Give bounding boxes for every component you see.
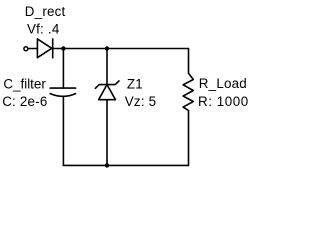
svg-text:D_rect: D_rect: [25, 4, 66, 19]
wire zener branch bottom: [106, 100, 108, 166]
junction dot node C (zener bottom): [105, 163, 109, 167]
capacitor C_filter top plate: [50, 87, 75, 89]
svg-text:C_filter: C_filter: [3, 76, 46, 91]
diode D_rect triangle: [37, 39, 51, 58]
wire top rail (cathode to right corner): [53, 48, 189, 50]
wire resistor to bottom rail: [188, 110, 190, 165]
svg-text:Vz: 5: Vz: 5: [125, 94, 157, 109]
wire capacitor branch bottom: [62, 96, 64, 165]
svg-text:Vf: .4: Vf: .4: [27, 21, 60, 36]
diode D_rect cathode bar: [52, 39, 54, 58]
svg-text:R: 1000: R: 1000: [198, 94, 249, 109]
svg-text:Z1: Z1: [127, 76, 143, 91]
wire capacitor branch top: [62, 49, 64, 89]
svg-text:R_Load: R_Load: [199, 76, 247, 91]
wire zener branch top: [106, 49, 108, 85]
zener Z1 cathode bar with hooks: [95, 81, 119, 88]
wire right branch down to resistor: [188, 49, 190, 74]
junction dot node A (diode/capacitor): [61, 46, 65, 50]
capacitor C_filter curved bottom plate: [50, 94, 75, 97]
input terminal (open circle): [24, 47, 28, 51]
wire bottom rail: [63, 164, 188, 166]
wire terminal to diode anode: [29, 48, 38, 50]
svg-text:C: 2e-6: C: 2e-6: [2, 94, 47, 109]
junction dot node B (zener top): [105, 46, 109, 50]
resistor R_Load zigzag: [183, 73, 193, 110]
zener Z1 triangle: [99, 85, 116, 100]
